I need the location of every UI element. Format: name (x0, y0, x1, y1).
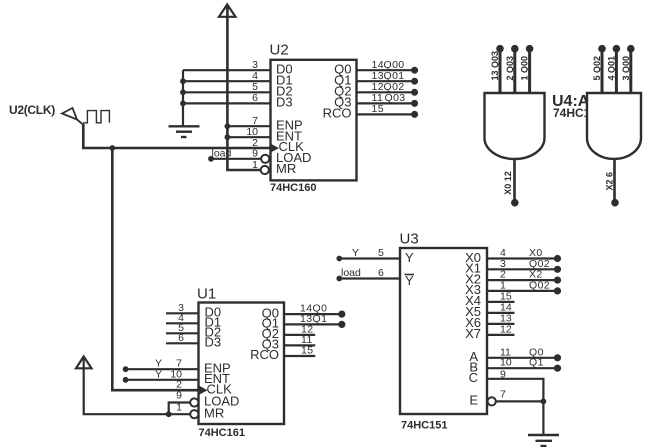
pin 13 wire (Q03) (490, 45, 504, 93)
clock waveform symbol (83, 111, 109, 123)
svg-text:MR: MR (276, 161, 296, 176)
pin 2 clock triangle U2 (271, 144, 280, 153)
svg-text:U3: U3 (400, 231, 419, 248)
pin 6 output wire (X2) (604, 160, 618, 207)
node Q00 end (411, 67, 418, 74)
svg-text:74HC161: 74HC161 (199, 427, 245, 439)
wire U3 W (load net) (336, 267, 400, 281)
wire U2 RCO out (357, 113, 415, 115)
wire CLK net: port down and across to U2 CLK (83, 124, 270, 148)
node Q1 end (338, 321, 345, 328)
svg-text:5: 5 (378, 247, 384, 259)
node Q0 end (338, 311, 345, 318)
svg-text:74HC160: 74HC160 (270, 182, 316, 194)
wire U2 Q0 out (357, 69, 415, 71)
wire U1 D2 (166, 332, 199, 334)
and-gate U4 right (587, 93, 641, 159)
U2 left pin numbers (246, 59, 258, 171)
pin 9 bubble U1 LOAD (190, 398, 198, 406)
svg-text:3 Q00: 3 Q00 (621, 56, 631, 81)
wire U2 D2 (183, 91, 271, 93)
svg-text:1: 1 (252, 159, 258, 171)
wire U1 D3 (166, 342, 199, 344)
svg-text:9: 9 (500, 369, 506, 381)
wire U2 D3 (183, 102, 271, 104)
svg-text:10: 10 (500, 357, 512, 369)
wire U3 X5 stub (487, 312, 515, 314)
pin 1 bubble U2 MR (261, 166, 269, 174)
svg-text:Y: Y (352, 247, 359, 259)
node Q02 end (411, 89, 418, 96)
svg-text:Y: Y (155, 368, 162, 380)
svg-text:9: 9 (252, 148, 258, 160)
node CLK junction (109, 145, 115, 151)
svg-text:D3: D3 (205, 335, 222, 350)
input port U2(CLK) (9, 103, 83, 125)
svg-text:15: 15 (301, 345, 313, 357)
pin 3 wire (Q00) (621, 45, 635, 93)
node X3 end (554, 287, 561, 294)
svg-text:Q02: Q02 (529, 279, 550, 291)
node D1 junction (180, 78, 186, 84)
wire U1 ENP (Y net) (123, 358, 199, 372)
node D3 junction (180, 101, 186, 107)
labels A/B (500, 346, 544, 368)
node E/gnd junction (541, 399, 547, 405)
wire U2 LOAD (load net) (208, 147, 261, 161)
svg-text:X7: X7 (465, 326, 481, 341)
svg-text:load: load (341, 267, 361, 279)
pin 1 wire (Q00) (520, 45, 534, 93)
node Q03 end (411, 100, 418, 107)
pin 1 bubble U1 MR (190, 410, 198, 418)
node VCC/ENP junction (225, 123, 231, 129)
U1 left pin numbers (170, 302, 184, 413)
pin 4 wire (Q01) (606, 45, 620, 93)
and-gate U4:A left (485, 93, 545, 159)
wire U3 B (Q1 net) (487, 367, 557, 369)
wire U1 Q2 stub (284, 334, 315, 336)
svg-text:E: E (469, 393, 478, 408)
svg-text:74HC151: 74HC151 (401, 420, 447, 432)
wire CLK net: down to U1 CLK (112, 148, 199, 390)
net labels U1 outputs (300, 303, 327, 357)
ground (near U2) (169, 126, 200, 137)
wire U3 C to ground (487, 379, 543, 435)
svg-text:4 Q01: 4 Q01 (606, 56, 616, 81)
power VCC arrow (bottom left) (76, 357, 92, 369)
wire U3 X2 (487, 279, 557, 281)
svg-text:C: C (469, 370, 478, 385)
wire U1 Q1 out (284, 323, 342, 325)
pin 2 clock triangle U1 (199, 386, 208, 395)
wire U2 ENT (227, 136, 270, 138)
node VCC/ENT junction (225, 134, 231, 140)
svg-text:U2(CLK): U2(CLK) (9, 103, 55, 117)
node B end (554, 365, 561, 372)
wire U3 X3 (487, 290, 557, 292)
svg-text:X0 12: X0 12 (503, 171, 513, 195)
net labels U2 outputs (372, 59, 406, 115)
svg-text:6: 6 (378, 267, 384, 279)
svg-text:1 Q00: 1 Q00 (520, 56, 530, 81)
node X0 end (554, 255, 561, 262)
pin 7 bubble U3 E (488, 397, 496, 405)
node LOAD/MR junction (166, 411, 172, 417)
power VCC arrow (top) (219, 5, 236, 17)
wire VCC to U1 MR (84, 357, 191, 414)
pin 9 bubble U2 LOAD (261, 155, 269, 163)
wire U2 Q2 out (357, 91, 415, 93)
wire U1 ENT (Y net) (123, 368, 199, 382)
wire U2 D1 (183, 80, 271, 82)
wire D bus to ground (182, 70, 184, 126)
svg-text:U2: U2 (270, 42, 289, 59)
node X2 end (554, 277, 561, 284)
wire U3 X4 stub (487, 301, 515, 303)
wire U3 E (496, 400, 543, 402)
chip U1 74HC161 (190, 286, 284, 440)
ground (bottom right) (528, 435, 559, 446)
node D2 junction (180, 89, 186, 95)
wire VCC vertical to U2 MR (227, 5, 261, 170)
svg-text:load: load (212, 147, 232, 159)
wire U1 RCO stub (284, 355, 315, 357)
wire U3 A (Q0 net) (487, 357, 557, 359)
node A end (554, 354, 561, 361)
svg-text:2 Q03: 2 Q03 (505, 56, 515, 81)
svg-text:X2 6: X2 6 (604, 172, 614, 191)
wire U1 D0 (166, 312, 199, 314)
svg-text:Q1: Q1 (313, 313, 328, 325)
svg-text:12: 12 (500, 323, 512, 335)
U3 right pin numbers and nets (500, 247, 550, 335)
svg-text:13 Q03: 13 Q03 (490, 51, 500, 81)
wire U1 D1 (166, 322, 199, 324)
chip U2 74HC160 (261, 42, 357, 195)
svg-text:RCO: RCO (250, 347, 279, 362)
wire U2 D0 (183, 69, 271, 71)
node RCO end (411, 111, 418, 118)
svg-text:5 Q02: 5 Q02 (592, 56, 602, 81)
wire U3 X1 (487, 268, 557, 270)
wire U3 X6 stub (487, 323, 515, 325)
svg-text:Y: Y (405, 250, 414, 265)
wire U3 X0 (487, 257, 557, 259)
wire U1 LOAD branch (169, 403, 191, 415)
wire U2 ENP (227, 125, 270, 127)
svg-text:7: 7 (500, 389, 506, 401)
pin 12 output wire (X0) (503, 159, 519, 207)
svg-text:U1: U1 (197, 286, 216, 303)
svg-text:MR: MR (204, 405, 224, 420)
svg-text:15: 15 (372, 103, 384, 115)
svg-text:Q1: Q1 (529, 357, 544, 369)
svg-text:Q03: Q03 (385, 92, 406, 104)
wire U1 Q3 stub (284, 344, 315, 346)
pin 5 wire (Q02) (592, 45, 606, 93)
wire U3 Y (Y net) (336, 247, 400, 261)
svg-text:9: 9 (176, 390, 182, 402)
node X1 end (554, 266, 561, 273)
wire U1 Q0 out (284, 313, 342, 315)
svg-text:RCO: RCO (323, 106, 352, 121)
node Q01 end (411, 78, 418, 85)
pin 2 wire (Q03) (505, 45, 519, 93)
chip U3 74HC151 (400, 231, 496, 432)
svg-text:D3: D3 (276, 95, 293, 110)
wire U2 Q3 out (357, 102, 415, 104)
svg-text:6: 6 (252, 92, 258, 104)
wire U3 X7 stub (487, 334, 515, 336)
wire U2 Q1 out (357, 80, 415, 82)
